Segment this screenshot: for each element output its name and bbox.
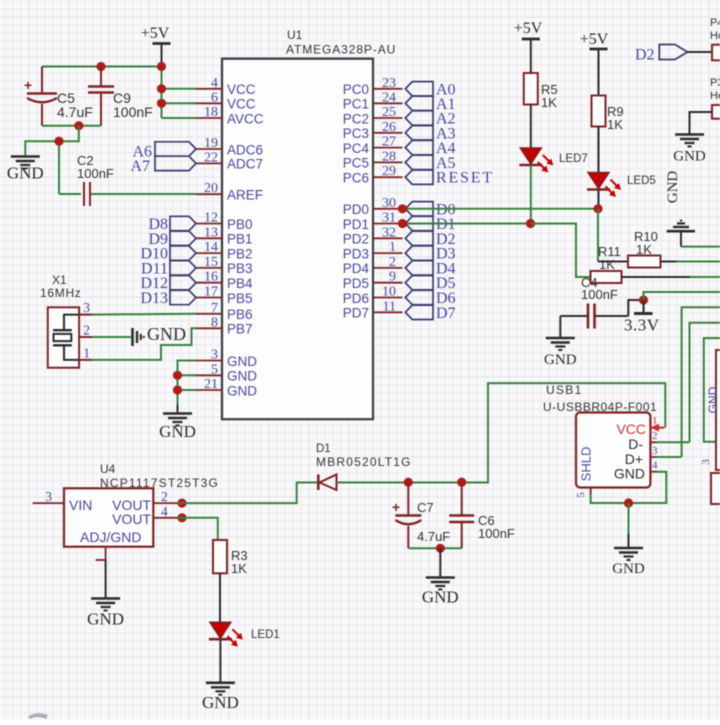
svg-text:ADJ/GND: ADJ/GND: [80, 529, 141, 545]
LED7: [519, 148, 587, 173]
ground GND (inverted, right): [665, 171, 695, 247]
net label A7: [130, 156, 196, 175]
svg-text:5: 5: [211, 362, 218, 377]
wire net D0: [402, 208, 598, 210]
ground GND (LED1): [202, 683, 239, 712]
svg-text:3: 3: [652, 445, 658, 457]
svg-text:PB0: PB0: [227, 217, 253, 232]
resistor R5 1K: [524, 73, 558, 110]
wire USB GND / shield: [591, 472, 667, 503]
wire VOUT to R3: [178, 518, 218, 540]
wire USB D+ up: [657, 456, 682, 458]
svg-text:P3: P3: [710, 77, 720, 89]
svg-text:22: 22: [204, 150, 218, 165]
svg-text:LED5: LED5: [627, 175, 656, 187]
svg-text:1K: 1K: [599, 257, 615, 272]
capacitor C5 4.7uF (electrolytic): [24, 67, 93, 126]
svg-text:VCC: VCC: [227, 82, 256, 97]
svg-text:2: 2: [161, 489, 168, 504]
svg-text:He: He: [710, 90, 720, 102]
wire C2 to AREF: [91, 193, 196, 195]
svg-text:GND: GND: [147, 324, 186, 344]
junction U4 VOUT pin2: [177, 499, 186, 508]
svg-text:27: 27: [382, 135, 396, 150]
IC right edge (partial): [706, 350, 720, 470]
svg-text:X1: X1: [52, 273, 67, 287]
wire inverted GND to right edge: [681, 246, 720, 248]
net label D10: [140, 246, 196, 263]
svg-text:31: 31: [382, 211, 396, 226]
svg-text:100nF: 100nF: [77, 166, 114, 181]
svg-text:D-: D-: [628, 436, 643, 452]
junction C7: [404, 478, 413, 487]
ground GND (C7/C6): [422, 578, 459, 607]
svg-text:3.3V: 3.3V: [624, 316, 660, 335]
resistor R9 1K: [592, 96, 624, 133]
wire D1 to R11: [531, 224, 591, 278]
svg-text:D1: D1: [316, 443, 331, 455]
ground GND (U4): [87, 599, 124, 629]
net label A1: [405, 96, 455, 113]
svg-text:PD4: PD4: [343, 261, 370, 276]
connector P4 (partial): [710, 17, 720, 60]
capacitor C7 4.7uF (electrolytic): [392, 483, 450, 549]
wire USB GND down: [628, 503, 630, 534]
svg-text:20: 20: [204, 181, 218, 196]
svg-text:PB2: PB2: [227, 246, 253, 261]
svg-text:MBR0520LT1G: MBR0520LT1G: [316, 455, 412, 469]
wire U1 GND pins: [178, 361, 197, 406]
svg-text:AREF: AREF: [227, 188, 263, 203]
net label D2: [405, 231, 455, 248]
svg-text:4.7uF: 4.7uF: [57, 104, 93, 120]
svg-text:+5V: +5V: [580, 31, 609, 48]
wire crystal pin2 to GND: [92, 336, 131, 338]
svg-text:ATMEGA328P-AU: ATMEGA328P-AU: [286, 43, 396, 57]
power flag +5V (R5): [514, 20, 543, 73]
svg-text:30: 30: [382, 196, 396, 211]
svg-text:100nF: 100nF: [478, 526, 515, 541]
svg-text:He: He: [710, 30, 720, 42]
svg-text:PB4: PB4: [227, 276, 253, 291]
net label A6: [132, 142, 196, 161]
svg-text:ADC6: ADC6: [227, 142, 263, 157]
wire USB D- up: [657, 441, 690, 443]
net label A0: [405, 81, 455, 98]
wire D1 node to C6 and USB riser: [408, 383, 665, 482]
svg-text:C7: C7: [417, 500, 434, 515]
svg-text:17: 17: [204, 285, 218, 300]
svg-text:100nF: 100nF: [113, 104, 153, 120]
junction 3.3V: [639, 295, 648, 304]
svg-text:3: 3: [700, 459, 712, 465]
svg-text:U-USBBR04P-F001: U-USBBR04P-F001: [543, 400, 657, 414]
svg-text:5: 5: [575, 492, 587, 498]
svg-text:8: 8: [211, 315, 218, 330]
svg-text:AVCC: AVCC: [227, 111, 264, 126]
net label D1: [405, 216, 455, 233]
svg-text:PC6: PC6: [343, 171, 369, 186]
svg-text:USB1: USB1: [546, 383, 583, 397]
smudge bottom left: [28, 713, 48, 719]
svg-text:PD1: PD1: [343, 217, 369, 232]
svg-text:PC1: PC1: [343, 97, 369, 112]
resistor R11 1K: [591, 244, 622, 283]
junction VCC pin4: [157, 84, 166, 93]
junction D0 pin30: [398, 204, 407, 213]
wire R3 to LED1: [219, 573, 221, 622]
net label D11: [141, 260, 196, 277]
junction GND rail / AREF drop: [54, 137, 63, 146]
junction C9 top: [96, 62, 105, 71]
ground GND (top left): [7, 157, 44, 183]
svg-text:VIN: VIN: [69, 497, 92, 513]
wire XTAL2 crystal pin1 to PB7: [92, 328, 196, 360]
svg-text:PD2: PD2: [343, 232, 369, 247]
svg-text:+5V: +5V: [141, 25, 170, 42]
junction USB GND: [624, 498, 633, 507]
svg-text:29: 29: [382, 164, 396, 179]
junction VCC pin6: [157, 99, 166, 108]
connector USB1 U-USBBR04P-F001: [543, 383, 664, 498]
junction bottom rail: [74, 121, 83, 130]
svg-text:U1: U1: [287, 28, 303, 42]
svg-text:9: 9: [389, 270, 396, 285]
wire R5 to LED7: [530, 105, 532, 149]
svg-text:U4: U4: [100, 462, 116, 476]
svg-text:PC3: PC3: [343, 126, 369, 141]
svg-text:4.7uF: 4.7uF: [417, 529, 450, 544]
svg-text:2: 2: [83, 323, 90, 338]
wire +5V rail to C5/C9: [42, 66, 162, 68]
power flag +5V (R9): [580, 31, 609, 96]
net label D8: [148, 216, 196, 233]
net label D7: [405, 305, 455, 322]
svg-text:18: 18: [204, 105, 218, 120]
svg-text:21: 21: [204, 377, 218, 392]
wire LED5 to D0: [598, 190, 600, 209]
svg-text:13: 13: [204, 225, 218, 240]
junction C6: [457, 478, 466, 487]
wire D0 down to R10: [597, 209, 599, 262]
svg-text:GND: GND: [612, 561, 645, 577]
net label A3: [405, 125, 455, 142]
ground GND (crystal, rotated): [133, 324, 187, 346]
svg-text:2: 2: [389, 255, 396, 270]
svg-text:SHLD: SHLD: [579, 447, 594, 482]
svg-text:24: 24: [382, 90, 396, 105]
svg-text:ADC7: ADC7: [227, 157, 263, 172]
svg-text:7: 7: [211, 301, 218, 316]
net label D2: [635, 45, 688, 64]
net label D6: [405, 290, 455, 307]
junction GND pin5: [173, 371, 182, 380]
svg-text:PC4: PC4: [343, 141, 370, 156]
svg-text:1: 1: [652, 415, 658, 427]
svg-text:PB3: PB3: [227, 261, 253, 276]
svg-text:PB6: PB6: [227, 307, 253, 322]
svg-text:D13: D13: [140, 290, 168, 307]
junction bottom rail GND: [436, 544, 445, 553]
net label D9: [148, 231, 196, 248]
svg-text:GND: GND: [544, 352, 577, 368]
svg-text:PD6: PD6: [343, 291, 369, 306]
svg-text:GND: GND: [7, 164, 44, 183]
svg-text:1K: 1K: [231, 561, 247, 576]
ground GND (USB): [612, 534, 645, 577]
LED5: [587, 173, 656, 198]
resistor R3 1K: [213, 540, 248, 576]
svg-text:4: 4: [652, 460, 658, 472]
svg-text:26: 26: [382, 120, 396, 135]
wire P3 to GND: [690, 112, 713, 134]
net label D3: [405, 246, 455, 263]
svg-text:+5V: +5V: [514, 20, 543, 37]
svg-text:PC2: PC2: [343, 111, 369, 126]
net label D13: [140, 290, 196, 307]
wire 3.3V to right edge: [644, 292, 720, 300]
svg-text:PD3: PD3: [343, 246, 369, 261]
svg-text:GND: GND: [227, 383, 257, 398]
svg-text:PB5: PB5: [227, 291, 253, 306]
wire U4 ADJ to GND: [105, 560, 107, 598]
net label D4: [405, 260, 455, 277]
svg-text:15: 15: [204, 255, 218, 270]
svg-text:+: +: [392, 499, 400, 515]
ground GND (below U1): [159, 405, 196, 441]
connector P3 (partial): [710, 77, 720, 119]
wire R10 to right edge: [661, 261, 720, 263]
junction GND pin21: [173, 385, 182, 394]
svg-text:PC0: PC0: [343, 82, 369, 97]
wire USB D- to right edge: [690, 323, 720, 443]
wire VOUT to D1 anode: [178, 483, 317, 504]
capacitor C2 100nF: [59, 153, 114, 206]
wire XTAL1 crystal pin3 to PB6: [92, 313, 196, 316]
svg-text:RESET: RESET: [436, 170, 494, 187]
svg-text:1K: 1K: [607, 117, 623, 132]
net label A4: [405, 140, 455, 157]
wire C7/C6 bottom rail: [408, 547, 461, 549]
svg-text:LED7: LED7: [559, 153, 588, 165]
svg-text:14: 14: [204, 240, 218, 255]
svg-text:25: 25: [382, 105, 396, 120]
svg-text:PD5: PD5: [343, 276, 369, 291]
power flag +5V (top left): [141, 25, 171, 67]
ground GND (C4): [544, 338, 577, 368]
svg-text:3: 3: [83, 300, 90, 315]
svg-text:2: 2: [652, 430, 658, 442]
svg-text:32: 32: [382, 225, 396, 240]
wire C4 to GND: [559, 316, 561, 337]
svg-text:23: 23: [382, 76, 396, 91]
svg-text:GND: GND: [202, 693, 239, 712]
svg-text:NCP1117ST25T3G: NCP1117ST25T3G: [100, 476, 219, 490]
svg-text:GND: GND: [227, 354, 257, 369]
svg-text:10: 10: [382, 285, 396, 300]
power flag 3.3V: [624, 300, 660, 335]
svg-text:P4: P4: [710, 17, 720, 29]
svg-text:GND: GND: [614, 466, 645, 482]
svg-text:VCC: VCC: [616, 421, 646, 437]
resistor R10 1K: [598, 229, 661, 268]
svg-text:19: 19: [204, 136, 218, 151]
junction D1 pin31: [398, 219, 407, 228]
junction +5V node: [157, 62, 166, 71]
diode D1 MBR0520LT1G: [316, 443, 412, 490]
svg-text:28: 28: [382, 149, 396, 164]
svg-text:6: 6: [211, 90, 218, 105]
wire LED7 to D1: [530, 166, 532, 224]
net label RESET: [405, 170, 494, 187]
capacitor C6 100nF: [449, 483, 515, 549]
wire USB D+ to right edge: [682, 307, 720, 457]
svg-text:+: +: [24, 77, 32, 93]
svg-text:D2: D2: [635, 47, 655, 64]
crystal X1 16MHz: [40, 273, 92, 368]
svg-text:16: 16: [204, 270, 218, 285]
wire C4 to 3.3V node: [628, 300, 643, 316]
svg-text:GND: GND: [227, 369, 257, 384]
wire LED1 to GND: [219, 640, 221, 682]
net label A2: [405, 111, 455, 128]
svg-text:GND: GND: [159, 422, 196, 441]
wire to GND rail: [25, 126, 79, 194]
net label D12: [140, 275, 196, 292]
IC U1 ATMEGA328P-AU: [196, 28, 403, 419]
svg-text:VOUT: VOUT: [112, 511, 151, 527]
wire right-edge connector net: [704, 338, 720, 442]
svg-text:GND: GND: [665, 171, 681, 204]
junction LED7 / D1: [526, 219, 535, 228]
wire R9 to LED5: [598, 127, 600, 173]
net label D5: [405, 275, 455, 292]
net label A5: [405, 155, 455, 172]
svg-text:PB1: PB1: [227, 232, 253, 247]
ground GND (P3): [673, 135, 706, 165]
wire net D1: [402, 223, 530, 225]
svg-text:1: 1: [83, 346, 90, 361]
svg-text:PC5: PC5: [343, 156, 369, 171]
svg-text:1K: 1K: [541, 95, 557, 110]
svg-text:100nF: 100nF: [581, 287, 618, 302]
svg-text:A7: A7: [130, 158, 150, 175]
svg-text:3: 3: [211, 348, 218, 363]
svg-text:11: 11: [383, 299, 396, 314]
wire to GND (C7/C6): [439, 548, 441, 577]
LED1: [209, 622, 280, 647]
wire C5/C9 bottom rail: [42, 125, 101, 127]
svg-text:PB7: PB7: [227, 322, 253, 337]
svg-text:PD0: PD0: [343, 202, 369, 217]
junction LED5 / D0: [593, 204, 602, 213]
net label D0: [405, 201, 455, 218]
wire R11 to right edge: [622, 276, 720, 278]
svg-text:GND: GND: [87, 610, 124, 629]
svg-text:4: 4: [161, 504, 168, 519]
svg-text:GND: GND: [422, 588, 459, 607]
svg-text:GND: GND: [706, 386, 720, 413]
wire +5V down to U1 VCC pins: [162, 67, 197, 119]
connector bottom right (partial): [700, 459, 720, 504]
svg-text:12: 12: [204, 211, 218, 226]
capacitor C9 100nF: [88, 67, 153, 126]
svg-text:1: 1: [389, 240, 396, 255]
svg-text:VCC: VCC: [227, 97, 256, 112]
svg-text:LED1: LED1: [251, 629, 280, 641]
svg-text:GND: GND: [673, 149, 706, 165]
regulator U4 NCP1117ST25T3G: [33, 462, 219, 560]
capacitor C4 100nF: [560, 275, 628, 329]
svg-text:PD7: PD7: [343, 306, 369, 321]
svg-text:3: 3: [45, 489, 52, 504]
svg-text:4: 4: [211, 76, 218, 91]
svg-text:16MHz: 16MHz: [40, 286, 82, 300]
svg-text:1K: 1K: [636, 242, 652, 257]
junction U4 VOUT pin4: [177, 513, 186, 522]
svg-text:D7: D7: [436, 305, 456, 322]
wire D2 to connector P4: [688, 51, 713, 53]
